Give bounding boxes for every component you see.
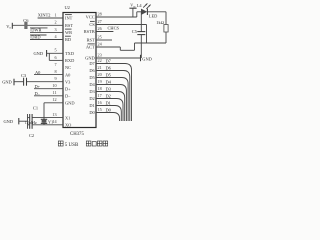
wire pin23 GND — [96, 57, 141, 59]
svg-text:LED: LED — [149, 14, 158, 19]
svg-text:27: 27 — [98, 19, 102, 24]
svg-text:12: 12 — [52, 97, 56, 102]
svg-text:D2: D2 — [106, 93, 111, 98]
svg-text:GND: GND — [65, 101, 75, 106]
wire D0 bus — [96, 113, 120, 122]
svg-text:GND: GND — [85, 56, 95, 61]
wire pin12 GND — [44, 102, 63, 104]
wire pin8 A0 — [34, 74, 63, 76]
wire pin2 — [12, 24, 63, 26]
svg-text:3: 3 — [55, 27, 57, 32]
wire D4 bus — [96, 85, 126, 122]
svg-text:7: 7 — [55, 62, 57, 67]
wire crystal branch vertical — [43, 103, 45, 125]
wire pin6 link — [48, 53, 50, 60]
svg-text:XO: XO — [65, 123, 71, 128]
svg-text:D2: D2 — [89, 96, 94, 101]
wire D1 bus — [96, 106, 121, 122]
svg-text:D7: D7 — [106, 58, 112, 63]
wire pin10 D+ — [34, 88, 63, 90]
wire pin9 — [14, 81, 23, 83]
svg-text:RD: RD — [65, 37, 71, 42]
svg-text:2: 2 — [55, 20, 57, 25]
svg-text:D6: D6 — [89, 68, 95, 73]
svg-text:22: 22 — [98, 58, 102, 63]
svg-text:ACT: ACT — [86, 45, 95, 50]
svg-text:10: 10 — [52, 83, 56, 88]
wire pin13 X1 — [28, 117, 30, 119]
svg-text:NC: NC — [65, 65, 71, 70]
capacitor C5 — [140, 12, 142, 32]
svg-text:21: 21 — [98, 65, 102, 70]
wire resistor to ACT — [165, 32, 167, 43]
svg-text:RSTB: RSTB — [84, 29, 95, 34]
svg-text:D3: D3 — [89, 89, 95, 94]
svg-text:19: 19 — [98, 79, 102, 84]
svg-text:WR: WR — [65, 30, 72, 35]
wire D3 bus — [96, 92, 125, 122]
svg-text:GND: GND — [34, 51, 44, 56]
wire pin26 — [96, 31, 113, 33]
crystal Y1 — [41, 118, 47, 120]
svg-text:X1: X1 — [65, 115, 70, 120]
wire pin24 ACT — [96, 46, 120, 48]
svg-text:D1: D1 — [106, 100, 111, 105]
resistor R 1kOhm — [164, 25, 168, 33]
capacitor C6 — [24, 22, 27, 29]
svg-text:C6: C6 — [23, 18, 29, 23]
svg-text:XINT2: XINT2 — [38, 13, 51, 18]
wire LED riser — [136, 12, 138, 17]
svg-text:1kΩ: 1kΩ — [156, 20, 164, 25]
caption figure title — [58, 141, 107, 146]
svg-text:D+: D+ — [65, 86, 71, 91]
wire pin5 — [47, 52, 63, 54]
svg-text:RST: RST — [65, 23, 73, 28]
svg-text:D–: D– — [35, 91, 41, 96]
wire pin3 /DWR — [30, 31, 63, 33]
svg-text:16: 16 — [98, 100, 102, 105]
svg-text:D4: D4 — [106, 79, 112, 84]
svg-text:CS: CS — [89, 22, 95, 27]
svg-text:C5: C5 — [132, 29, 138, 34]
svg-text:23: 23 — [98, 53, 102, 58]
wire D6 bus — [96, 71, 130, 122]
capacitor C3 — [23, 78, 25, 86]
svg-text:CHCS: CHCS — [108, 25, 120, 30]
ground label GND right — [140, 55, 142, 61]
wire pin14 X0 — [28, 124, 30, 126]
svg-text:RST: RST — [87, 38, 95, 43]
svg-text:U2: U2 — [65, 5, 70, 10]
svg-text:D5: D5 — [89, 75, 95, 80]
svg-text:D1: D1 — [89, 103, 94, 108]
svg-text:D6: D6 — [106, 65, 112, 70]
svg-text:D+: D+ — [35, 84, 41, 89]
svg-text:5 USB: 5 USB — [65, 143, 79, 148]
svg-text:V3: V3 — [65, 79, 71, 84]
capacitor C1 — [29, 114, 31, 121]
svg-text:GND: GND — [142, 56, 152, 61]
wire pin1 XINT2 — [38, 17, 63, 19]
svg-text:13: 13 — [52, 112, 56, 117]
svg-text:17: 17 — [98, 93, 102, 98]
svg-text:INT: INT — [65, 16, 73, 21]
svg-text:D4: D4 — [89, 82, 95, 87]
wire D7 bus — [96, 64, 132, 122]
wire pin27 CS — [96, 24, 147, 26]
svg-text:15: 15 — [98, 107, 102, 112]
svg-text:Vcc: Vcc — [130, 3, 136, 9]
svg-text:11: 11 — [53, 90, 57, 95]
svg-text:GND: GND — [2, 80, 12, 85]
svg-text:D5: D5 — [106, 72, 112, 77]
wire pin25 — [96, 39, 112, 41]
svg-text:VCC: VCC — [86, 15, 95, 20]
wire pin4 /DRD — [30, 39, 63, 41]
svg-text:5: 5 — [55, 48, 57, 53]
wire D5 bus — [96, 78, 128, 122]
svg-text:TXD: TXD — [65, 51, 74, 56]
wire pin11 D- — [34, 95, 63, 97]
svg-text:RXD: RXD — [65, 58, 74, 63]
svg-text:6: 6 — [55, 55, 57, 60]
IC U2 CH375 chip body — [63, 13, 96, 128]
svg-text:Y1: Y1 — [48, 120, 53, 125]
wire pin28 VCC — [96, 16, 137, 18]
svg-text:D3: D3 — [106, 86, 112, 91]
svg-text:1: 1 — [55, 12, 57, 17]
wire LED to resistor — [147, 11, 166, 13]
svg-text:9: 9 — [55, 76, 57, 81]
svg-text:C1: C1 — [33, 105, 38, 110]
svg-text:25: 25 — [98, 35, 102, 40]
svg-text:D0: D0 — [89, 110, 95, 115]
svg-text:GND: GND — [4, 119, 14, 124]
svg-text:8: 8 — [55, 69, 57, 74]
svg-text:D0: D0 — [106, 107, 112, 112]
wire D2 bus — [96, 99, 123, 122]
svg-text:L4: L4 — [137, 3, 143, 8]
svg-text:12MHz: 12MHz — [25, 121, 37, 125]
LED L4 — [141, 9, 147, 15]
svg-text:A0: A0 — [35, 70, 41, 75]
svg-text:D–: D– — [65, 94, 71, 99]
svg-text:20: 20 — [98, 72, 102, 77]
capacitor C2 — [29, 122, 31, 129]
svg-text:D7: D7 — [89, 61, 95, 66]
svg-text:Vo: Vo — [6, 24, 11, 30]
svg-text:18: 18 — [98, 86, 102, 91]
svg-text:C3: C3 — [21, 73, 27, 78]
svg-text:A0: A0 — [65, 72, 71, 77]
wire ground rail crystal — [27, 114, 29, 129]
svg-text:28: 28 — [98, 12, 102, 17]
svg-text:CH375: CH375 — [70, 132, 84, 137]
svg-text:C2: C2 — [29, 133, 34, 138]
svg-text:26: 26 — [98, 26, 102, 31]
